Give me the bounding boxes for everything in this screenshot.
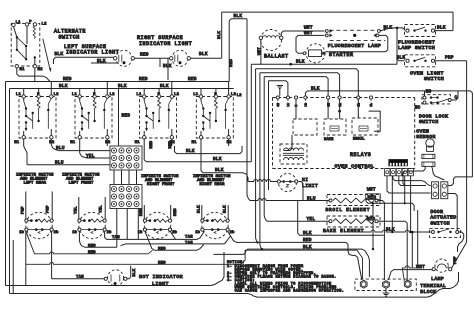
svg-text:BLK: BLK xyxy=(163,64,172,69)
svg-text:BLK: BLK xyxy=(59,84,68,89)
svg-text:LEFT REAR: LEFT REAR xyxy=(24,182,47,186)
svg-text:YEL: YEL xyxy=(86,154,95,159)
boxed label BLK on wire y63 xyxy=(91,62,119,64)
verticals to terminal block xyxy=(391,231,393,233)
wire from H2 alternate switch xyxy=(34,68,36,82)
svg-text:BLK: BLK xyxy=(97,59,106,64)
svg-text:SENSOR: SENSOR xyxy=(416,134,436,140)
svg-text:INDICATOR LIGHT: INDICATOR LIGHT xyxy=(139,41,192,47)
oven sensor connector top xyxy=(422,154,435,158)
surface element at x=215 xyxy=(202,212,228,238)
wire bake right down xyxy=(378,221,407,281)
svg-text:PRP: PRP xyxy=(47,205,51,213)
bundle wire B xyxy=(250,64,252,162)
wire right rear stubs xyxy=(200,139,202,146)
junction dot below terminal xyxy=(338,110,341,113)
wire BLK y172.7 to hi-limit xyxy=(201,146,248,182)
wire BLK right indicator to top bus riser xyxy=(191,57,222,59)
svg-text:2b: 2b xyxy=(230,230,235,235)
svg-text:NC: NC xyxy=(415,106,421,111)
svg-text:L2: L2 xyxy=(237,94,243,98)
svg-text:RED: RED xyxy=(230,59,234,67)
door lock switch box xyxy=(422,95,451,104)
wire hi limit right down to broil wire xyxy=(298,182,303,201)
fluorescent lamp right pins xyxy=(378,30,381,33)
svg-text:LAMP SWITCH: LAMP SWITCH xyxy=(398,45,435,51)
wire TAN2 join el4 drop xyxy=(225,236,231,244)
infinite switch left front xyxy=(75,97,112,139)
svg-text:RELAYS: RELAYS xyxy=(350,152,371,158)
svg-text:ACTUATED: ACTUATED xyxy=(430,215,456,221)
risers element right rear xyxy=(201,205,203,219)
alternate switch terminal L1 xyxy=(12,23,15,26)
wire BLK y249.1 long xyxy=(214,249,370,277)
BLK bus xyxy=(10,88,234,90)
relay box 1 xyxy=(293,119,317,135)
relay box 3 BROIL xyxy=(352,118,378,135)
bundle wire E xyxy=(264,77,267,222)
svg-text:RED: RED xyxy=(140,53,149,58)
wire lamp right pin to fluorescent switch xyxy=(380,28,405,31)
svg-text:L1: L1 xyxy=(72,93,78,97)
svg-text:BLK: BLK xyxy=(397,55,406,60)
wire H2 H1 right front stubs xyxy=(143,139,145,146)
svg-text:BLK: BLK xyxy=(437,26,446,31)
svg-text:L1: L1 xyxy=(16,93,22,97)
svg-text:HOT INDICATOR: HOT INDICATOR xyxy=(139,274,183,280)
wire from L2 diagonal down xyxy=(43,39,51,72)
svg-text:RED: RED xyxy=(368,195,377,200)
bake element xyxy=(327,216,380,227)
wire to oven light switch xyxy=(397,28,405,61)
svg-text:CAN CAUSE IMPROPER AND DANGERO: CAN CAUSE IMPROPER AND DANGEROUS OPERATI… xyxy=(227,290,344,294)
wire door switch right down xyxy=(458,232,464,252)
svg-text:TAN: TAN xyxy=(185,241,193,245)
alternate switch terminal P xyxy=(25,23,28,26)
svg-text:BLK: BLK xyxy=(218,31,222,39)
alternate switch box xyxy=(11,24,40,66)
wire hot light right up BLK xyxy=(127,266,131,279)
wire ballast right to lamp pin WHT xyxy=(281,31,324,36)
svg-text:SWITCH: SWITCH xyxy=(424,76,444,82)
relay box 2 BAKE xyxy=(324,119,346,135)
svg-text:L1: L1 xyxy=(16,21,22,25)
wire long RED lower xyxy=(26,250,363,279)
terminal block lug 3 xyxy=(404,280,411,288)
svg-text:H1: H1 xyxy=(192,141,198,145)
svg-text:LEFT FRONT: LEFT FRONT xyxy=(69,182,95,186)
svg-text:2b: 2b xyxy=(54,230,59,235)
svg-text:RIGHT FRONT: RIGHT FRONT xyxy=(147,183,175,187)
svg-text:BLK: BLK xyxy=(197,205,201,213)
bottom bus y293 long xyxy=(10,272,459,297)
wire ballast left down xyxy=(260,40,262,65)
risers element right front xyxy=(143,205,145,219)
svg-text:TAN: TAN xyxy=(112,236,120,240)
wire left indicator to right indicator RED xyxy=(135,57,170,59)
svg-text:BLK: BLK xyxy=(296,60,305,65)
wire RED y242.4 long xyxy=(228,231,362,280)
svg-text:STARTER: STARTER xyxy=(329,52,354,58)
svg-text:PRP: PRP xyxy=(454,256,458,264)
svg-text:SWITCH: SWITCH xyxy=(59,34,80,40)
wire H1 left rear down xyxy=(24,139,27,165)
svg-text:RIGHT REAR: RIGHT REAR xyxy=(200,183,226,187)
wire TAN second xyxy=(121,244,225,246)
svg-text:GN: GN xyxy=(277,103,280,107)
terminal block box xyxy=(355,279,416,290)
svg-text:H2: H2 xyxy=(49,141,55,145)
wire TAN to hot light xyxy=(52,278,104,280)
oven lamp xyxy=(435,259,448,272)
svg-text:BLK: BLK xyxy=(199,52,208,57)
vertical RED wire to connector xyxy=(118,89,120,147)
svg-text:H1: H1 xyxy=(14,141,20,145)
svg-text:PRP: PRP xyxy=(445,55,454,60)
alternate switch terminal H2 xyxy=(33,65,36,68)
wires sensor down xyxy=(403,166,426,185)
right edge PRP wire down xyxy=(466,61,468,243)
bundle wire C xyxy=(256,69,258,243)
oven control transformer xyxy=(280,144,307,164)
wire lamp right to PRP riser xyxy=(452,242,467,267)
svg-text:BROIL ELEMENT: BROIL ELEMENT xyxy=(326,207,371,213)
svg-text:SWITCH: SWITCH xyxy=(430,221,450,227)
svg-text:2b: 2b xyxy=(107,230,112,235)
svg-text:H2: H2 xyxy=(227,141,233,145)
wire YEL to bake element xyxy=(267,220,329,222)
oven control dashed box xyxy=(273,97,415,99)
infinite switch right rear xyxy=(196,97,233,139)
wire starter to lamp pin2 WHT xyxy=(296,35,325,53)
wire YEL left front to connector xyxy=(80,139,110,158)
svg-text:1b: 1b xyxy=(72,230,77,235)
svg-text:OVEN CONTROL: OVEN CONTROL xyxy=(335,163,375,169)
wire BLK y232 xyxy=(358,230,430,232)
wire WHT to oven lamp xyxy=(388,270,432,280)
verticals below lower connector xyxy=(116,209,118,248)
clock display block xyxy=(389,160,408,166)
hop wire into lug3 xyxy=(402,266,417,281)
svg-text:BLOCK: BLOCK xyxy=(420,289,436,295)
bundle wire F xyxy=(268,81,270,190)
top BLK bus xyxy=(222,11,453,13)
second top bus xyxy=(229,19,247,82)
wire relay1 to transformer xyxy=(284,135,292,151)
svg-text:OVEN: OVEN xyxy=(416,129,429,135)
YEL risers element left front xyxy=(78,197,80,219)
svg-text:BAKE ELEMENT: BAKE ELEMENT xyxy=(323,228,364,234)
alternate switch blades xyxy=(14,27,17,38)
terminal block lug 1 xyxy=(360,280,367,288)
svg-text:RED: RED xyxy=(158,247,166,251)
ground at oven control xyxy=(279,88,281,96)
oven light switch xyxy=(405,55,436,67)
wire BLK y235 from broil area xyxy=(298,201,384,236)
ballast xyxy=(261,30,282,51)
wire TAN from element left front xyxy=(105,231,205,239)
alternate switch pilot coil xyxy=(33,26,35,38)
wire BLU H2 left rear to connector xyxy=(51,139,110,151)
svg-text:RED: RED xyxy=(174,208,178,216)
cross wire B5 xyxy=(269,81,288,96)
svg-text:RED: RED xyxy=(150,140,154,148)
svg-text:BLK: BLK xyxy=(311,86,320,91)
svg-text:PRP: PRP xyxy=(21,206,25,214)
svg-text:WHT: WHT xyxy=(304,31,313,36)
svg-text:1b: 1b xyxy=(195,230,200,235)
top bus right riser xyxy=(452,12,454,31)
left surface indicator light xyxy=(116,50,132,66)
svg-text:INDICATOR LIGHT: INDICATOR LIGHT xyxy=(66,50,119,56)
top BLK bus riser xyxy=(221,12,223,58)
svg-text:TERMINAL: TERMINAL xyxy=(420,283,446,289)
svg-text:H1: H1 xyxy=(135,141,141,145)
broil element xyxy=(327,195,380,206)
svg-text:DOOR: DOOR xyxy=(430,209,443,215)
svg-text:BALLAST: BALLAST xyxy=(264,54,289,60)
wire el3 2b drop xyxy=(170,231,176,239)
wire RED boxed left col2 xyxy=(26,231,153,254)
clock terminal strip xyxy=(385,169,390,176)
svg-text:YEL: YEL xyxy=(74,206,78,214)
svg-text:OVEN LIGHT: OVEN LIGHT xyxy=(410,70,444,76)
svg-text:L1: L1 xyxy=(136,93,142,97)
svg-text:FLUORESCENT: FLUORESCENT xyxy=(398,40,435,46)
risers from buses to switch terminals xyxy=(23,89,25,95)
cross wire B3 xyxy=(260,73,340,96)
svg-text:BLK: BLK xyxy=(213,157,222,162)
surface element at x=157.5 xyxy=(144,212,170,238)
svg-text:TAN: TAN xyxy=(185,236,193,240)
wires door lock to bus xyxy=(424,91,426,96)
wire BLK y90.9 long right xyxy=(305,91,472,177)
svg-text:BLU: BLU xyxy=(55,161,64,166)
svg-text:SWITCH: SWITCH xyxy=(419,119,439,125)
svg-text:NO: NO xyxy=(426,90,432,95)
surface element at x=92 xyxy=(79,212,105,238)
svg-text:H1: H1 xyxy=(20,68,26,72)
svg-text:L2: L2 xyxy=(54,93,60,97)
cross wire B4 xyxy=(264,77,328,96)
svg-text:YEL: YEL xyxy=(307,217,316,222)
svg-text:H1: H1 xyxy=(70,141,76,145)
svg-text:BLK: BLK xyxy=(118,84,127,89)
svg-text:HI: HI xyxy=(302,177,309,183)
wires clock strip down xyxy=(387,176,431,193)
svg-text:P: P xyxy=(29,21,32,25)
right surface indicator light xyxy=(172,50,188,66)
sensor 2x2 connector xyxy=(432,182,439,199)
svg-text:RED: RED xyxy=(139,77,148,82)
wire RED boxed mid xyxy=(145,231,204,250)
svg-text:FLUORESCENT LAMP: FLUORESCENT LAMP xyxy=(328,43,381,49)
surface element at x=39 xyxy=(26,212,52,238)
wire left drop 13 xyxy=(12,240,14,294)
riser RED to bus xyxy=(167,58,169,80)
wire RED boxed left col xyxy=(79,231,116,247)
wire from top bus to bundle xyxy=(396,28,398,64)
svg-text:LIMIT: LIMIT xyxy=(302,183,318,189)
svg-text:YEL: YEL xyxy=(100,205,104,213)
fluorescent lamp tube xyxy=(330,29,386,31)
RED bus xyxy=(6,81,230,83)
svg-text:BLK: BLK xyxy=(224,205,228,213)
cross wire BLK bus to oven xyxy=(251,63,397,65)
oven sensor connector bottom xyxy=(422,162,435,166)
svg-text:TAN: TAN xyxy=(76,275,84,279)
hi limit thermostat xyxy=(279,174,297,192)
svg-text:RED: RED xyxy=(367,217,376,222)
svg-text:RED: RED xyxy=(188,77,197,82)
wire el1 2b drop down xyxy=(51,231,53,279)
svg-text:DL: DL xyxy=(370,103,373,107)
wire BLU long left xyxy=(27,164,110,166)
wire H2 internal xyxy=(34,57,36,64)
connector block lower xyxy=(110,185,142,209)
fluorescent lamp switch xyxy=(405,25,436,37)
relay verticals xyxy=(327,99,329,119)
svg-text:WHT: WHT xyxy=(416,265,425,270)
latch shape xyxy=(369,111,381,131)
svg-text:BLK: BLK xyxy=(133,268,137,276)
hot indicator light xyxy=(108,270,124,286)
svg-text:BLK: BLK xyxy=(186,149,195,154)
svg-text:BLK: BLK xyxy=(303,245,312,250)
PRP risers element left rear xyxy=(25,192,27,219)
terminal block lug 2 xyxy=(383,281,390,289)
wire y203 cross xyxy=(366,199,414,211)
wire PRP oven light switch xyxy=(435,60,467,62)
svg-text:BLK: BLK xyxy=(160,84,169,89)
svg-text:BLK: BLK xyxy=(386,228,395,233)
cross wire B2 xyxy=(256,69,359,96)
bundle wire A xyxy=(247,19,250,201)
riser BLK below light xyxy=(159,58,161,67)
door actuated switch xyxy=(430,229,461,238)
wire BLK y153.6 xyxy=(175,146,243,154)
svg-text:L1: L1 xyxy=(287,103,290,107)
svg-text:L2: L2 xyxy=(305,103,308,107)
wire 2x2 top right to edge xyxy=(448,177,473,186)
bottom bus y285 xyxy=(6,252,225,286)
svg-text:BROIL: BROIL xyxy=(353,137,365,141)
svg-text:1b: 1b xyxy=(19,230,24,235)
alternate switch terminal H1 xyxy=(15,65,18,68)
BLK bus left drop xyxy=(9,89,11,294)
svg-text:RED: RED xyxy=(88,244,96,248)
wire 2x2 bottom right to door switch xyxy=(448,194,457,231)
svg-text:RED: RED xyxy=(140,208,144,216)
terminal block ground xyxy=(385,289,387,293)
RED bus left drop xyxy=(5,82,7,286)
label RED boxed clock xyxy=(366,194,381,200)
wire element1 1b drop xyxy=(25,231,27,285)
wire BLU to broil element xyxy=(250,199,329,201)
svg-text:DOOR LOCK: DOOR LOCK xyxy=(419,113,448,119)
alternate switch terminal L2 xyxy=(33,23,36,26)
starter xyxy=(306,44,325,63)
wire BLK y161.8 xyxy=(144,146,251,162)
wire switch to top bus riser xyxy=(435,30,453,32)
svg-text:BLK: BLK xyxy=(55,52,64,57)
wire broil right down xyxy=(378,201,384,281)
infinite switch left rear xyxy=(19,97,56,139)
connector block upper xyxy=(110,146,142,170)
wire BLK to left indicator xyxy=(54,57,114,64)
svg-text:2b: 2b xyxy=(172,230,177,235)
oven sensor bulb xyxy=(426,139,434,147)
svg-text:BLK: BLK xyxy=(215,168,224,173)
vertical wires connector to connector xyxy=(113,170,115,185)
wire from H1 alternate switch xyxy=(17,68,50,82)
svg-text:WHT: WHT xyxy=(304,26,313,31)
alternate switch contact dots xyxy=(16,36,18,38)
wire H2 left front down xyxy=(106,139,108,146)
svg-text:H2: H2 xyxy=(38,68,44,72)
svg-text:BLU: BLU xyxy=(307,196,316,201)
svg-text:L1: L1 xyxy=(193,93,199,97)
svg-text:WHT: WHT xyxy=(367,188,376,193)
svg-text:LIGHT: LIGHT xyxy=(152,281,169,287)
oven control terminals xyxy=(276,96,279,99)
svg-text:BLU: BLU xyxy=(56,146,65,151)
svg-text:BLK: BLK xyxy=(303,231,312,236)
bundle wire D xyxy=(260,73,262,249)
fluorescent lamp dot xyxy=(353,34,356,37)
svg-text:RED: RED xyxy=(122,114,131,119)
svg-text:L2: L2 xyxy=(110,93,116,97)
svg-text:BLK: BLK xyxy=(384,25,393,30)
svg-text:BLK: BLK xyxy=(234,14,243,19)
infinite switch right front xyxy=(140,97,177,139)
svg-text:L2: L2 xyxy=(42,23,48,27)
svg-text:RED: RED xyxy=(169,140,173,148)
fluorescent lamp left pins xyxy=(325,30,328,33)
svg-text:RED: RED xyxy=(88,251,96,255)
junction fluorescent wire xyxy=(396,27,399,30)
svg-text:RED: RED xyxy=(63,77,72,82)
svg-text:H2: H2 xyxy=(105,141,111,145)
svg-text:BAKE: BAKE xyxy=(324,138,333,142)
svg-text:RED: RED xyxy=(303,238,312,243)
svg-text:RED: RED xyxy=(158,261,166,265)
wire starter right to lamp right pin2 xyxy=(326,35,388,51)
svg-text:LAMP: LAMP xyxy=(431,276,444,282)
svg-text:L2: L2 xyxy=(174,93,180,97)
